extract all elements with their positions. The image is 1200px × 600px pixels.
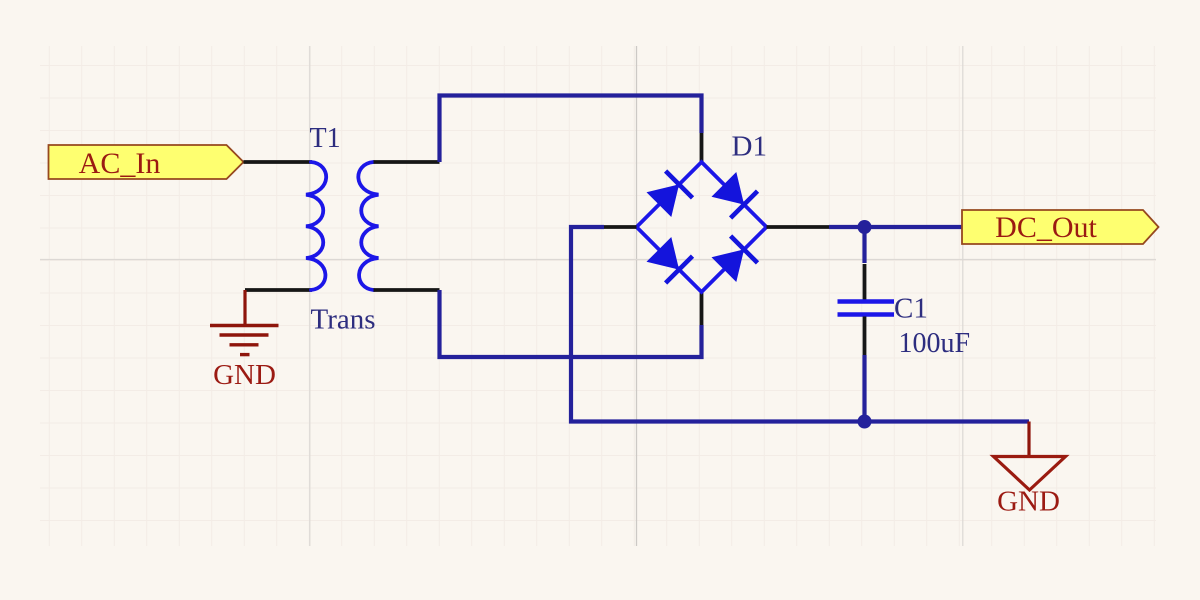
pin secondary bottom (black) <box>374 288 440 292</box>
wire secondary bottom to bridge bottom <box>440 290 702 357</box>
pin C1 bottom (black) <box>863 317 867 356</box>
wire AC_In to transformer primary top <box>244 160 313 164</box>
wire C1 bottom <box>862 355 866 422</box>
wire secondary top to bridge top <box>440 96 702 163</box>
pin secondary top (black) <box>374 160 440 164</box>
diode D1c (lower-left) <box>647 237 693 283</box>
diode D1d (lower-right) <box>712 236 758 282</box>
svg-text:DC_Out: DC_Out <box>995 211 1097 244</box>
ground GND1 stem <box>243 290 246 325</box>
ground GND1 bars <box>210 324 279 327</box>
svg-text:GND: GND <box>997 486 1060 518</box>
pin bridge left (black) <box>604 225 637 229</box>
bridge D1 diamond <box>637 162 767 292</box>
svg-text:Trans: Trans <box>311 304 376 336</box>
sheet zone divider horizontal <box>40 259 1156 261</box>
junction node at C1 bottom <box>858 415 872 429</box>
transformer T1 secondary winding <box>358 162 378 290</box>
pin bridge bottom (black) <box>700 292 704 325</box>
wire bridge left down to bottom rail <box>571 227 1029 422</box>
svg-text:T1: T1 <box>310 123 341 154</box>
svg-text:100uF: 100uF <box>899 328 971 359</box>
svg-text:C1: C1 <box>894 293 928 325</box>
capacitor C1 plates <box>838 299 895 304</box>
pin C1 top (black) <box>863 264 867 300</box>
ground GND2 triangle <box>994 457 1066 491</box>
wire C1 top <box>862 227 866 263</box>
wire bridge right to DC_Out <box>829 225 962 229</box>
ground GND2 stem <box>1027 422 1030 457</box>
pin bridge top (black) <box>700 133 704 162</box>
sheet zone divider vertical A <box>309 46 311 546</box>
wire transformer primary bottom <box>245 288 312 292</box>
sheet zone divider vertical B <box>636 46 638 546</box>
sheet zone divider vertical C <box>962 46 964 546</box>
svg-text:AC_In: AC_In <box>79 147 161 180</box>
svg-text:D1: D1 <box>732 131 767 163</box>
svg-text:GND: GND <box>213 359 276 391</box>
port AC_In <box>49 145 244 180</box>
diode D1b (upper-right) <box>712 172 758 218</box>
pin bridge right (black) <box>767 225 830 229</box>
junction node at C1 top <box>858 220 872 234</box>
transformer T1 primary winding <box>306 162 326 290</box>
port DC_Out <box>962 210 1159 244</box>
diode D1a (upper-left) <box>647 171 693 217</box>
